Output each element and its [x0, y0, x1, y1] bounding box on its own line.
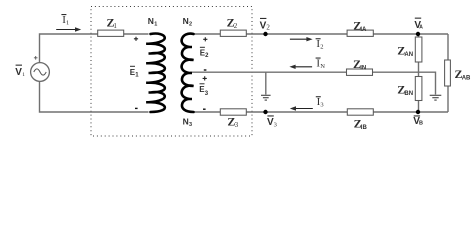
primary winding N1 — [146, 34, 165, 112]
label I1 — [61, 14, 69, 26]
svg-text:1: 1 — [113, 22, 117, 30]
line impedance ZlN — [347, 69, 373, 75]
plus secondary mid-lower — [203, 76, 207, 80]
svg-text:1: 1 — [22, 72, 25, 78]
svg-text:2: 2 — [189, 21, 192, 27]
ground middle — [261, 95, 271, 100]
plus secondary top — [203, 37, 207, 41]
ground right — [430, 95, 442, 100]
label I2 — [316, 38, 324, 50]
label ZlB — [354, 116, 368, 131]
node V3 — [263, 110, 267, 114]
AC source V1 — [31, 63, 50, 82]
label E3 — [199, 83, 208, 97]
impedance ZAB — [445, 60, 451, 86]
svg-text:lB: lB — [361, 125, 368, 131]
impedance Z3 — [220, 109, 246, 115]
label V2 — [260, 18, 271, 32]
svg-text:3: 3 — [235, 121, 239, 129]
svg-text:3: 3 — [274, 122, 277, 129]
current arrow IN — [289, 65, 312, 69]
minus secondary bottom — [203, 108, 206, 110]
wire bottom secondary row — [193, 111, 448, 113]
label I3 — [316, 96, 324, 108]
node VB — [416, 110, 420, 114]
wire bottom-left from source to primary — [40, 82, 149, 113]
svg-text:2: 2 — [234, 22, 238, 30]
label IN — [316, 58, 326, 70]
current arrow I3 — [290, 106, 313, 110]
wire far-right branch Z_AB — [447, 34, 449, 112]
wire top secondary row — [193, 33, 448, 35]
svg-text:2: 2 — [320, 44, 323, 51]
wire neutral middle row — [190, 71, 419, 73]
label N1 — [148, 16, 157, 28]
line impedance ZlA — [347, 30, 373, 36]
svg-text:N: N — [148, 16, 154, 26]
label V1 — [15, 65, 25, 79]
node V2 — [263, 32, 267, 36]
label Z1 — [107, 16, 118, 31]
svg-text:3: 3 — [320, 102, 323, 109]
dashed transformer box — [91, 7, 252, 137]
svg-text:N: N — [320, 63, 325, 70]
svg-text:BN: BN — [404, 91, 413, 97]
label ZAB — [455, 67, 472, 82]
label ZlN — [353, 57, 366, 72]
svg-text:N: N — [183, 117, 189, 127]
minus secondary mid-upper — [204, 69, 207, 71]
impedance Z2 — [220, 30, 246, 36]
svg-text:V: V — [15, 67, 22, 78]
label Z3 — [227, 114, 238, 129]
svg-text:N: N — [183, 16, 189, 26]
svg-text:lA: lA — [360, 27, 367, 33]
label ZAN — [397, 43, 413, 58]
current arrow I2 — [290, 37, 313, 41]
label N3 — [183, 117, 192, 129]
wire top-left from source to Z1 — [40, 34, 149, 63]
svg-text:AB: AB — [462, 75, 471, 81]
svg-text:B: B — [419, 121, 423, 127]
impedance ZBN — [415, 77, 422, 101]
label V3 — [267, 115, 277, 128]
current arrow I1 — [56, 27, 81, 31]
impedance Z1 — [98, 30, 124, 36]
impedance ZAN — [415, 37, 422, 62]
svg-text:2: 2 — [266, 23, 270, 31]
svg-text:AN: AN — [404, 52, 413, 58]
label E2 — [200, 47, 209, 59]
secondary winding N2/N3 — [182, 34, 194, 112]
node VA — [416, 32, 420, 36]
svg-text:1: 1 — [154, 21, 157, 27]
svg-text:A: A — [419, 25, 423, 31]
wire ground stub middle — [265, 72, 267, 94]
label E1 — [130, 66, 139, 79]
svg-text:3: 3 — [189, 122, 192, 128]
plus primary top — [134, 37, 138, 41]
wire ground stub right — [419, 72, 436, 94]
label Z2 — [227, 16, 238, 31]
label VB — [413, 115, 423, 126]
svg-text:lN: lN — [360, 65, 366, 71]
minus primary bottom — [135, 107, 138, 109]
label ZlA — [353, 19, 367, 34]
wire right branch A-N-B — [418, 34, 420, 112]
svg-text:1: 1 — [66, 19, 69, 26]
line impedance ZlB — [347, 109, 373, 115]
plus sign at source — [34, 56, 38, 60]
label N2 — [183, 16, 192, 28]
label VA — [414, 18, 423, 31]
label ZBN — [397, 82, 413, 97]
